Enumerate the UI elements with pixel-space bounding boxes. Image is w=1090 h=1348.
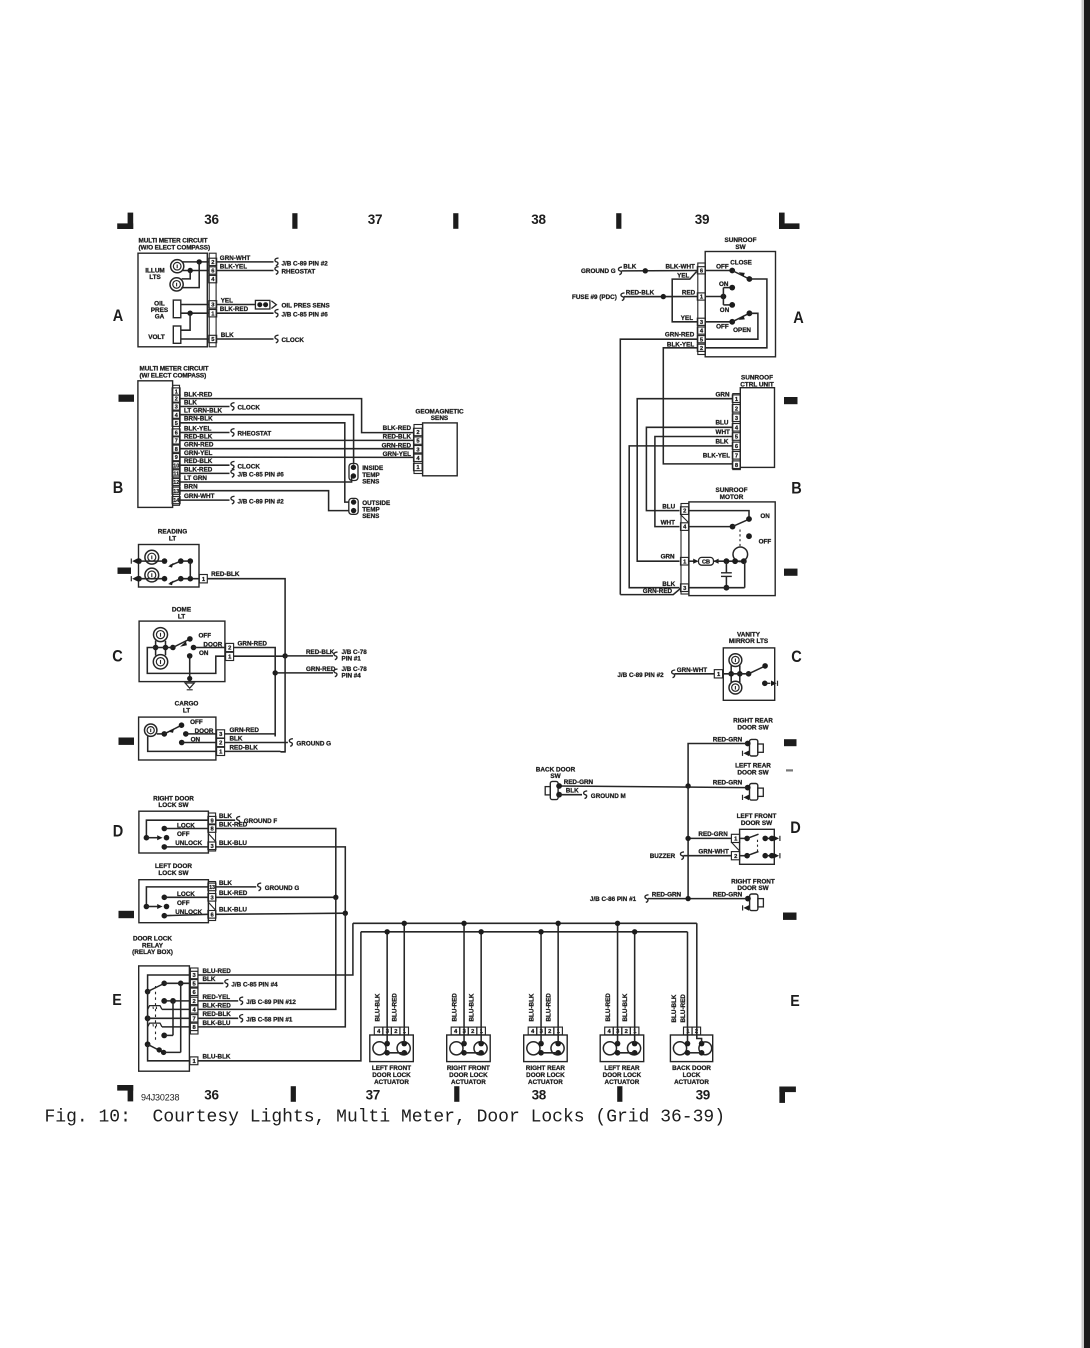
wire LT GRN-BLK pin4 to inside temp sens [180, 415, 354, 465]
svg-text:BLK: BLK [623, 264, 636, 271]
pin 13 [172, 487, 180, 494]
sw pin 3 [697, 318, 705, 325]
svg-text:DOOR LOCK: DOOR LOCK [526, 1072, 565, 1079]
pin 9 [172, 454, 180, 461]
ground terminal lower (reading lt) [136, 576, 142, 582]
grid corner mark bottom-right [779, 1087, 785, 1103]
pin 4 [209, 275, 217, 282]
svg-text:BLK-RED: BLK-RED [184, 466, 213, 473]
svg-text:PIN #4: PIN #4 [342, 673, 362, 680]
alignment dash left row D [119, 738, 135, 745]
dome DOOR contact dot [191, 645, 197, 651]
svg-text:D: D [790, 818, 801, 837]
junction dot pin1 net [187, 311, 192, 316]
right front door sw symbol [750, 894, 758, 911]
svg-text:2: 2 [175, 397, 178, 403]
alignment dash left row E [119, 911, 135, 918]
svg-text:MOTOR: MOTOR [720, 494, 744, 501]
svg-text:BLU-BLK: BLU-BLK [468, 993, 475, 1021]
right front door lock actuator connector strip [451, 1027, 460, 1035]
svg-text:DOOR LOCK: DOOR LOCK [603, 1072, 642, 1079]
svg-text:SENS: SENS [362, 513, 379, 520]
back door lock actuator connector strip [684, 1027, 693, 1035]
connector hook J/B C-89 PIN 2 [275, 258, 279, 266]
svg-text:ACTUATOR: ACTUATOR [451, 1079, 486, 1086]
right rear door lock actuator motor coils [527, 1042, 540, 1055]
alignment dash left row C [118, 568, 132, 574]
connector hook J/B C-89 PIN 2 vanity [672, 670, 676, 678]
svg-text:GRN-RED: GRN-RED [184, 442, 214, 449]
wire BLK ctrl pin6 to motor pin3 vertical [629, 446, 732, 588]
sunroof motor box [689, 502, 775, 596]
svg-text:RED-GRN: RED-GRN [713, 891, 743, 898]
lf door sw pin 1 [731, 834, 739, 842]
wire BLK pin5 to clock [216, 338, 273, 340]
sw pin 1 [697, 293, 705, 300]
wire BLK relay pin5 to J/B C-85 PIN 4 [198, 982, 223, 984]
svg-text:BLU-RED: BLU-RED [391, 993, 398, 1022]
svg-text:13: 13 [209, 885, 215, 891]
connector hook RHEOSTAT [275, 267, 279, 275]
grid tick bottom 37/38 [454, 1086, 459, 1102]
motor key diagonal [681, 515, 689, 523]
wire GRN-WHT to vanity pin1 [675, 673, 715, 675]
wire RED-BLK dome pin1 junction [234, 655, 286, 657]
wire drop pin1 left front [403, 923, 405, 1043]
svg-text:BLK-RED: BLK-RED [203, 1002, 232, 1009]
wire drop pin3 left front [386, 932, 388, 1044]
pin 7 [172, 437, 180, 444]
reading lt switch blade row1 [170, 561, 181, 566]
illum lamp 1 [171, 260, 184, 273]
cargo pin 2 [217, 738, 225, 746]
motor capacitor [725, 561, 727, 573]
svg-text:RED-BLK: RED-BLK [626, 289, 655, 296]
svg-text:ON: ON [199, 650, 209, 657]
svg-text:DOOR SW: DOOR SW [737, 724, 769, 731]
svg-text:LT: LT [178, 614, 185, 621]
svg-text:BRN-BLK: BRN-BLK [184, 416, 213, 423]
wire RED-YEL relay pin2 to J/B C-89 PIN 12 [198, 1000, 238, 1002]
svg-text:39: 39 [696, 1087, 710, 1102]
svg-text:6: 6 [175, 431, 178, 437]
svg-text:14: 14 [173, 498, 180, 504]
svg-text:BLK: BLK [662, 581, 675, 588]
svg-text:GRN-RED: GRN-RED [306, 666, 336, 673]
sw pin 2 [697, 344, 705, 351]
svg-text:BRN: BRN [184, 484, 198, 491]
left rear door lock actuator connector strip [605, 1027, 614, 1035]
wire BLK cargo pin2 to ground G [225, 742, 288, 744]
wire LT GRN pin12 to inside temp sens [180, 476, 353, 482]
svg-text:GRN-RED: GRN-RED [230, 727, 260, 734]
right front door lock actuator motor coils [450, 1042, 463, 1055]
svg-text:DOOR SW: DOOR SW [737, 885, 769, 892]
gm pin 5 [414, 437, 423, 444]
wire BLK right door to GROUND F [216, 819, 236, 821]
relay internal mid vertical (pin2 to lower contact) [172, 1001, 174, 1036]
svg-text:94J30238: 94J30238 [141, 1093, 179, 1103]
pin 11 [172, 470, 180, 477]
svg-text:BLK: BLK [219, 813, 232, 820]
ctrl pin 2 [732, 405, 740, 413]
wire LOCK contact to pin 3 [164, 896, 208, 898]
svg-text:GRN-RED: GRN-RED [643, 588, 673, 595]
svg-text:BLK-RED: BLK-RED [219, 890, 248, 897]
svg-text:BLK-YEL: BLK-YEL [220, 263, 247, 270]
svg-text:A: A [793, 308, 804, 327]
illum lamp 2 [170, 278, 183, 291]
svg-text:DOOR SW: DOOR SW [741, 820, 773, 827]
svg-text:RED-GRN: RED-GRN [713, 780, 743, 787]
sw pin 5 [697, 336, 705, 343]
svg-text:2: 2 [683, 509, 686, 515]
svg-text:RHEOSTAT: RHEOSTAT [282, 268, 316, 275]
svg-text:RED-YEL: RED-YEL [203, 994, 231, 1001]
ld key diagonal [208, 902, 215, 910]
svg-text:13: 13 [173, 489, 179, 495]
pin 4 [172, 411, 180, 418]
connector hook fuse 9 [621, 293, 625, 301]
svg-text:CLOCK: CLOCK [238, 405, 261, 412]
wire RED-BLK pin7 to geomagnetic pin5 [180, 439, 413, 441]
sunroof ctrl unit box [740, 388, 774, 468]
alignment dash right row D [784, 739, 797, 746]
left rear door lock actuator box [600, 1035, 644, 1062]
alignment dash right row E [783, 913, 797, 920]
svg-text:Fig. 10: Courtesy Lights, Mul: Fig. 10: Courtesy Lights, Multi Meter, D… [45, 1107, 726, 1127]
cargo ON contact dot [179, 740, 185, 746]
wire YEL pin3 to oil pres sens [216, 304, 255, 306]
svg-text:11: 11 [173, 472, 179, 478]
wire GRN ctrl pin1 to motor pin1 vertical [637, 399, 732, 562]
svg-text:BLK: BLK [203, 976, 216, 983]
svg-text:LT GRN: LT GRN [184, 475, 207, 482]
svg-text:YEL: YEL [221, 297, 233, 304]
svg-text:2: 2 [192, 999, 195, 1005]
ctrl pin 6 [732, 442, 740, 450]
svg-text:E: E [112, 992, 122, 1009]
lf door sw pin 2 [731, 852, 739, 860]
alignment dash left row A/B [119, 395, 135, 402]
svg-text:BLU-BLK: BLU-BLK [671, 994, 678, 1022]
alignment dash right row A/B [784, 397, 798, 404]
junction dot pin6 net [188, 268, 193, 273]
cargo internal loop lamp to pin 1 [148, 736, 217, 751]
motor OFF contact [746, 533, 752, 539]
svg-text:SENS: SENS [362, 479, 379, 486]
dome internal node dots [153, 645, 159, 651]
svg-text:RIGHT REAR: RIGHT REAR [526, 1065, 566, 1072]
svg-text:BLK: BLK [184, 399, 197, 406]
svg-text:OFF: OFF [177, 900, 190, 907]
ground terminal upper (reading lt) [136, 558, 142, 564]
motor connector strip [681, 504, 689, 595]
connector hook CLOCK [275, 335, 279, 343]
svg-text:RED: RED [682, 289, 696, 296]
svg-text:ON: ON [720, 307, 730, 314]
sw pin 6 [697, 267, 705, 274]
svg-text:GRN-RED: GRN-RED [238, 640, 268, 647]
svg-text:RED-BLK: RED-BLK [203, 1011, 232, 1018]
svg-text:BLK-BLU: BLK-BLU [203, 1020, 231, 1027]
svg-text:BLU-RED: BLU-RED [545, 993, 552, 1022]
svg-text:SENS: SENS [431, 415, 449, 422]
connector hook J/B C-78 PIN 1 [334, 652, 338, 660]
svg-text:OFF: OFF [177, 831, 190, 838]
svg-text:LEFT FRONT: LEFT FRONT [372, 1065, 411, 1072]
multi meter circuit (w/o compass) box [138, 253, 207, 347]
svg-text:BLK-RED: BLK-RED [220, 306, 249, 313]
svg-text:37: 37 [366, 1087, 380, 1102]
svg-text:BLK-YEL: BLK-YEL [667, 341, 694, 348]
svg-text:YEL: YEL [681, 315, 693, 322]
svg-text:8: 8 [175, 447, 178, 453]
svg-text:OPEN: OPEN [733, 327, 751, 334]
vanity pin 1 [714, 670, 722, 678]
svg-text:BACK DOOR: BACK DOOR [672, 1065, 711, 1072]
right rear door sw symbol [750, 739, 758, 756]
svg-text:SW: SW [550, 773, 561, 780]
connector hook buzzer [680, 852, 684, 860]
wire drop pin1 right front [480, 932, 482, 1044]
back door sw symbol [550, 781, 558, 799]
pin 5 [209, 335, 217, 342]
pin 2 [209, 258, 217, 265]
svg-text:BLU-RED: BLU-RED [680, 994, 687, 1023]
svg-text:J/B C-86 PIN #1: J/B C-86 PIN #1 [590, 896, 637, 903]
relay pin 1 [190, 1057, 198, 1065]
relay internal wire to pin 1 [148, 1044, 190, 1061]
wire BLK left door to GROUND G [216, 886, 257, 888]
reading lt switch blade row2 [170, 579, 181, 584]
wire GRN-WHT pin2 to J/B C-89 [216, 261, 273, 263]
pin 8 [172, 445, 180, 452]
svg-text:LOCK: LOCK [683, 1072, 701, 1079]
svg-text:GA: GA [155, 314, 165, 321]
grid tick bottom 36/37 [291, 1086, 296, 1102]
pin 3 [209, 301, 217, 308]
svg-text:GRN-YEL: GRN-YEL [383, 451, 411, 458]
bus BLU-BLK horizontal (relay pin1 net) [361, 931, 688, 933]
wire RED-GRN to right front door sw [648, 898, 748, 900]
svg-text:5: 5 [175, 421, 178, 427]
gm pin 2 [414, 428, 423, 435]
geomagnetic connector strip [414, 425, 423, 474]
svg-text:2: 2 [734, 854, 737, 860]
svg-text:RED-GRN: RED-GRN [652, 891, 682, 898]
wire LOCK contact to pin 8 BLK-RED [164, 828, 208, 830]
connector hook GROUND G cargo [289, 739, 293, 747]
svg-text:LEFT REAR: LEFT REAR [604, 1065, 640, 1072]
wire oil gauge to pin 3 [181, 304, 209, 306]
relay internal dashed actuator link [155, 986, 157, 1042]
motor internal pin4 wire and blade [689, 526, 733, 528]
svg-text:36: 36 [204, 212, 219, 227]
wire BLK-YEL pin6 to rheostat [216, 270, 273, 272]
svg-text:J/B C-58 PIN #1: J/B C-58 PIN #1 [246, 1017, 293, 1024]
relay pin 8 [190, 1023, 198, 1030]
vanity mirror box [723, 648, 774, 700]
svg-text:J/B C-85 PIN #6: J/B C-85 PIN #6 [282, 312, 329, 319]
wire BLK-RED net down to relay pin 4 [198, 897, 336, 1009]
rd pin 3 [208, 842, 216, 850]
svg-text:BLK-YEL: BLK-YEL [703, 453, 730, 460]
connector hook J/B C-58 PIN 1 [240, 1015, 244, 1023]
wire BLK-BLU net down to relay pin 8 [198, 913, 345, 1027]
wire WHT ctrl pin5 to motor pin4 vertical [655, 437, 732, 527]
svg-text:BLK: BLK [566, 788, 579, 795]
sw pin 4 [697, 327, 705, 334]
svg-text:BLU-RED: BLU-RED [203, 968, 232, 975]
svg-text:GROUND G: GROUND G [581, 268, 616, 275]
svg-text:(W/ ELECT COMPASS): (W/ ELECT COMPASS) [140, 372, 207, 379]
wire BLU-BLK relay pin1 to bus2 [198, 932, 361, 1061]
left front door lock actuator motor coils [373, 1042, 386, 1055]
svg-text:GRN: GRN [661, 554, 675, 561]
lf door sw internals row2 [740, 855, 748, 857]
svg-text:LT: LT [169, 535, 176, 542]
svg-text:BUZZER: BUZZER [650, 853, 676, 860]
svg-text:RED-BLK: RED-BLK [306, 649, 335, 656]
wire BLK-RED right door to net [216, 829, 336, 898]
wire drop pin3 right front [463, 923, 465, 1043]
ld pin 13 [208, 883, 216, 891]
svg-text:BLU-RED: BLU-RED [451, 993, 458, 1022]
rd pin 9 [208, 816, 216, 824]
wire lamp1 to pin 6 [182, 270, 209, 272]
svg-text:SW: SW [735, 244, 746, 251]
wire UNLOCK contact to pin 3 BLK-BLU [164, 846, 208, 848]
svg-text:LT GRN-BLK: LT GRN-BLK [184, 408, 222, 415]
ctrl unit connector strip [733, 394, 741, 470]
svg-text:2: 2 [625, 1029, 628, 1035]
svg-text:ACTUATOR: ACTUATOR [528, 1079, 563, 1086]
svg-text:WHT: WHT [716, 429, 730, 436]
ctrl pin 5 [732, 433, 740, 441]
svg-text:GRN-WHT: GRN-WHT [677, 667, 708, 674]
wire BLK-RED pin2 to geomagnetic pin2 [180, 399, 413, 433]
svg-text:GRN: GRN [716, 392, 730, 399]
wire BLK-YEL sw pin2 to ctrl unit pin8 [663, 348, 733, 464]
motor pin 1 [681, 557, 689, 565]
gm pin 3 [414, 446, 423, 453]
wire cargo DOOR contact to pin 3 [186, 733, 217, 735]
left door lock common wire to pin 13 [146, 887, 208, 907]
svg-text:GROUND G: GROUND G [296, 741, 331, 748]
wire GRN-YEL pin9 to geomagnetic pin4 [180, 456, 413, 458]
connector hook J/B C-85 PIN 6 [275, 309, 279, 317]
vanity lamp 2 [729, 681, 742, 694]
ld pin 6 [208, 911, 216, 919]
wire BLK pin3 to clock [180, 406, 229, 408]
svg-text:7: 7 [175, 439, 178, 445]
svg-text:BLU: BLU [662, 504, 675, 511]
svg-text:RED-BLK: RED-BLK [230, 744, 259, 751]
svg-text:YEL: YEL [677, 272, 689, 279]
cargo internal wire lamp to switch [157, 733, 164, 735]
ld pin 3 [208, 894, 216, 902]
svg-text:2: 2 [211, 260, 214, 266]
relay internal bottom switch [145, 1041, 151, 1047]
junction dot RED-BLK at dome pin1 [282, 653, 287, 658]
volt gauge element [173, 326, 181, 343]
svg-text:LT: LT [183, 707, 190, 714]
reading lt internal wires row2 [139, 578, 165, 580]
svg-text:BLK-YEL: BLK-YEL [184, 425, 211, 432]
junction dot GRN-RED branch [273, 670, 278, 675]
connector hook J/B C-89 PIN 2 b14 [231, 496, 235, 504]
svg-text:BLU-BLK: BLU-BLK [203, 1054, 231, 1061]
svg-text:ON: ON [719, 281, 729, 288]
lf door sw internals row1 [740, 837, 748, 839]
junction dot BLK-BLU net [343, 911, 348, 916]
svg-text:GRN-WHT: GRN-WHT [698, 849, 729, 856]
svg-text:2: 2 [394, 1029, 397, 1035]
wire lamp2 bottom to pin2 net [181, 262, 199, 288]
svg-text:BLU-BLK: BLU-BLK [622, 993, 629, 1021]
left door lock connector strip [208, 882, 215, 921]
multi meter circuit (w/ compass) box [138, 381, 173, 508]
relay pin 3 [190, 971, 198, 978]
reading lt box [139, 545, 200, 588]
relay internal pin2 contacts [161, 998, 167, 1004]
junction dot pin2 net [197, 259, 202, 264]
grid corner mark top-right [779, 213, 785, 229]
svg-text:B: B [113, 478, 124, 497]
wire drop back door pin2 from BLU-RED bus [697, 923, 702, 1043]
wire dome DOOR contact to pin 2 [194, 647, 226, 649]
geomagnetic sens box [423, 423, 458, 476]
svg-text:GRN-YEL: GRN-YEL [184, 450, 212, 457]
svg-text:FUSE #9 (PDC): FUSE #9 (PDC) [572, 294, 617, 301]
svg-text:RED-GRN: RED-GRN [698, 831, 728, 838]
svg-text:7: 7 [735, 453, 738, 459]
pin 10 [172, 462, 180, 469]
svg-text:(RELAY BOX): (RELAY BOX) [132, 949, 173, 956]
wire RED-BLK branch to J/B C-78 PIN 1 [285, 655, 333, 657]
relay internal top switch [148, 975, 190, 992]
connector hook GROUND F [237, 816, 241, 824]
gm pin 1 [414, 463, 423, 470]
wire RED-BLK cargo pin1 from dome vertical [225, 750, 281, 752]
svg-text:38: 38 [532, 1087, 547, 1102]
svg-text:2: 2 [219, 741, 222, 747]
svg-text:2: 2 [228, 646, 231, 652]
svg-text:2: 2 [548, 1029, 551, 1035]
motor internal pin1 feed with CB [689, 560, 697, 562]
vanity ground arrow [765, 682, 771, 684]
svg-text:CB: CB [702, 560, 710, 566]
pin 6 [172, 429, 180, 436]
left rear door lock actuator motor coils [603, 1042, 616, 1055]
svg-text:ACTUATOR: ACTUATOR [605, 1079, 640, 1086]
svg-text:DOOR LOCK: DOOR LOCK [372, 1072, 411, 1079]
svg-text:GRN-RED: GRN-RED [665, 332, 695, 339]
svg-text:BLK-RED: BLK-RED [184, 392, 213, 399]
left rear door sw symbol [750, 784, 758, 801]
svg-text:GRN-RED: GRN-RED [382, 442, 412, 449]
svg-text:E: E [790, 993, 800, 1010]
dome switch blade to OFF [173, 639, 189, 647]
right door lock contacts [162, 826, 168, 832]
wire BRN pin13 to outside temp sens [180, 491, 349, 511]
svg-text:C: C [112, 647, 123, 666]
wire BLK-RED pin11 to J/B C-85 PIN 6 [180, 472, 229, 474]
svg-text:RIGHT FRONT: RIGHT FRONT [447, 1065, 490, 1072]
motor dashed link [739, 530, 741, 547]
left front door sw box [740, 829, 775, 864]
